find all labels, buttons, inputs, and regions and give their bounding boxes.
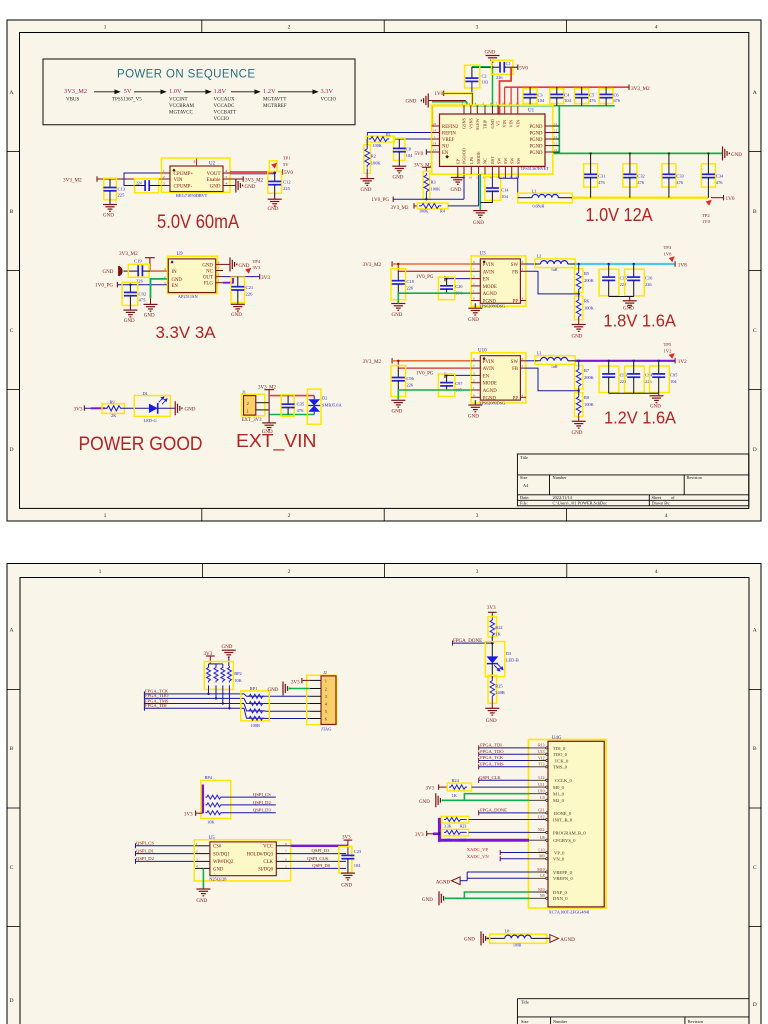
ground (C12): [268, 199, 282, 206]
ground (U5): [196, 889, 210, 896]
svg-text:PP: PP: [513, 300, 519, 305]
svg-text:R26: R26: [460, 839, 466, 843]
ground (R25): [485, 708, 499, 715]
wire FLG purple: [223, 277, 233, 283]
svg-text:CPUMP+: CPUMP+: [174, 172, 194, 177]
svg-text:LED-B: LED-B: [506, 658, 519, 663]
svg-text:NC: NC: [483, 158, 488, 164]
capacitor C35: [281, 395, 294, 417]
ground (EP): [457, 174, 459, 177]
svg-text:R9: R9: [110, 399, 116, 404]
svg-text:TPS51367RVET: TPS51367RVET: [521, 166, 550, 171]
svg-text:MODE: MODE: [476, 151, 481, 164]
ground (C96/AGND U10): [391, 400, 405, 407]
svg-text:FPGA_DONE: FPGA_DONE: [480, 808, 507, 813]
svg-text:Number: Number: [553, 475, 568, 480]
svg-text:PGND: PGND: [529, 132, 543, 137]
svg-text:3: 3: [476, 513, 479, 519]
svg-text:NU: NU: [442, 145, 449, 150]
svg-text:200K: 200K: [584, 375, 595, 380]
svg-text:1: 1: [325, 678, 327, 683]
svg-text:C31: C31: [598, 174, 605, 179]
svg-text:U8: U8: [540, 836, 545, 840]
sheet 2 inner border: [20, 578, 749, 1024]
wire SW to L3: [526, 360, 535, 362]
svg-text:1V0_PG: 1V0_PG: [416, 275, 434, 280]
svg-text:AGND: AGND: [436, 881, 451, 886]
svg-text:L8: L8: [505, 929, 511, 934]
svg-text:5.0V 60mA: 5.0V 60mA: [157, 212, 239, 233]
ground (D1): [175, 401, 182, 415]
svg-text:1K: 1K: [452, 793, 458, 798]
capacitor C31: [584, 164, 598, 187]
svg-text:B: B: [753, 209, 757, 215]
svg-text:B: B: [753, 746, 757, 752]
ground (C8): [392, 166, 406, 173]
ground (C93 C94 C95): [650, 396, 664, 403]
svg-text:XC7A100T-2FGG484I: XC7A100T-2FGG484I: [549, 909, 590, 914]
svg-text:100K: 100K: [431, 187, 442, 192]
svg-text:GND: GND: [103, 270, 114, 275]
wire IN highlighted: [150, 270, 168, 272]
svg-text:CLK: CLK: [263, 860, 273, 865]
svg-text:QSPI_D1: QSPI_D1: [136, 848, 155, 853]
capacitor C96: [391, 366, 406, 397]
svg-text:D: D: [9, 998, 13, 1004]
svg-text:4: 4: [226, 181, 228, 185]
svg-text:A4: A4: [523, 483, 529, 488]
regulator U3 selection box: [471, 256, 526, 306]
wire AVIN red (U10): [398, 361, 471, 368]
svg-text:104: 104: [670, 379, 677, 384]
U2 pins: [162, 173, 231, 186]
fpga U4G body: [548, 741, 604, 907]
svg-text:4: 4: [655, 25, 658, 31]
svg-text:1V0_PG: 1V0_PG: [95, 282, 113, 288]
wire 1V8 cyan: [575, 263, 675, 265]
regulator U10 body: [480, 356, 520, 400]
svg-text:VCCINT: VCCINT: [169, 98, 188, 103]
svg-text:3: 3: [476, 25, 479, 31]
svg-text:EXT_3V3: EXT_3V3: [242, 418, 263, 423]
svg-text:CCLK_0: CCLK_0: [555, 778, 573, 783]
wire SW to L2: [526, 263, 535, 265]
capacitor C14: [485, 177, 501, 201]
svg-text:TDI_0: TDI_0: [553, 746, 566, 751]
connector J1 body: [244, 396, 256, 416]
svg-text:2022/11/14: 2022/11/14: [553, 495, 573, 500]
svg-text:C96: C96: [407, 376, 415, 381]
svg-text:MGTRREF: MGTRREF: [263, 104, 287, 109]
svg-text:3V3_M2: 3V3_M2: [245, 178, 264, 183]
svg-text:U10: U10: [538, 790, 545, 794]
wire 3V3_M2 to VIN: [97, 176, 170, 182]
svg-text:U3: U3: [480, 252, 487, 257]
capacitor C20: [438, 277, 454, 300]
svg-text:226: 226: [496, 75, 503, 80]
svg-text:VIN: VIN: [515, 120, 520, 128]
node 5V0 (U1): [517, 65, 519, 71]
resistor pack RP2: [204, 662, 233, 690]
svg-text:476: 476: [716, 180, 723, 185]
wire AGND green: [151, 279, 169, 298]
svg-text:PVIN: PVIN: [483, 263, 495, 268]
svg-text:VCCADC: VCCADC: [214, 104, 236, 109]
svg-text:104: 104: [538, 98, 545, 103]
wire Enable to 3V3_M2: [230, 178, 243, 180]
svg-text:4: 4: [655, 569, 658, 575]
svg-text:NC: NC: [206, 270, 213, 275]
sequence arrows: [94, 90, 318, 94]
svg-text:of: of: [671, 495, 675, 500]
svg-text:14: 14: [554, 122, 558, 126]
svg-text:EN: EN: [483, 374, 490, 379]
wire OUT 3V3: [223, 276, 260, 278]
wire VOUT 5V0: [230, 171, 275, 173]
svg-text:Revision: Revision: [687, 475, 703, 480]
svg-text:3V3: 3V3: [253, 265, 262, 270]
svg-text:C2: C2: [482, 73, 487, 78]
svg-text:GND: GND: [451, 188, 462, 193]
svg-text:Revision: Revision: [688, 1019, 704, 1024]
svg-text:GND: GND: [392, 410, 403, 415]
svg-text:226: 226: [407, 286, 414, 291]
J1 pin wires: [256, 403, 269, 410]
U10 pin numbers: [473, 357, 524, 398]
wire FB: [526, 271, 579, 294]
svg-text:R25: R25: [495, 684, 503, 689]
svg-text:2: 2: [288, 25, 291, 31]
svg-text:GND: GND: [268, 688, 279, 693]
svg-text:TP1: TP1: [283, 156, 291, 161]
capacitor C1: [492, 60, 513, 74]
connector J2 body: [321, 676, 336, 725]
svg-text:QSPI_CS: QSPI_CS: [136, 841, 154, 846]
svg-text:SI/DQ0: SI/DQ0: [258, 867, 274, 872]
regulator U1 body: [440, 114, 546, 166]
svg-text:C35: C35: [297, 402, 305, 407]
capacitor C18: [391, 269, 406, 300]
sheet 2 page background: [7, 564, 761, 1024]
svg-text:3V3_M2: 3V3_M2: [631, 86, 650, 92]
svg-text:3V3: 3V3: [426, 787, 435, 792]
svg-text:VCC: VCC: [263, 845, 273, 850]
ground (U2 GND pin): [230, 185, 236, 187]
svg-text:224: 224: [136, 181, 142, 185]
svg-text:6: 6: [226, 169, 228, 173]
svg-text:RP2: RP2: [234, 671, 242, 676]
svg-text:VCCIO: VCCIO: [321, 98, 337, 103]
svg-text:1uH: 1uH: [551, 268, 558, 272]
svg-text:CPUMP-: CPUMP-: [174, 185, 193, 190]
svg-text:EXT_VIN: EXT_VIN: [236, 430, 317, 452]
svg-text:DXP_0: DXP_0: [553, 890, 567, 895]
svg-text:10: 10: [515, 102, 519, 106]
svg-text:EP: EP: [455, 158, 460, 164]
svg-text:1.2V: 1.2V: [263, 88, 276, 95]
svg-text:C14: C14: [501, 188, 509, 193]
svg-text:VCCBATT: VCCBATT: [214, 111, 237, 116]
svg-text:SMBJ5.0A: SMBJ5.0A: [322, 403, 342, 408]
RP2 resistor tails: [209, 685, 230, 708]
svg-text:D3: D3: [506, 651, 512, 656]
ground (R2): [360, 179, 374, 186]
svg-text:Date:: Date:: [520, 495, 529, 500]
svg-text:L1: L1: [532, 188, 537, 193]
regulator U10 selection box: [471, 353, 526, 403]
svg-text:3.3V 3A: 3.3V 3A: [156, 323, 217, 342]
ground (C13): [103, 205, 117, 212]
svg-text:PGND: PGND: [529, 151, 543, 156]
svg-text:SO/DQ1: SO/DQ1: [213, 852, 230, 857]
svg-text:GSNS: GSNS: [462, 117, 467, 129]
svg-text:476: 476: [676, 180, 683, 185]
svg-text:SW: SW: [516, 157, 521, 164]
svg-text:GND: GND: [268, 207, 279, 212]
wire PVIN red (U10): [392, 360, 471, 362]
inductor L3: [535, 356, 575, 365]
sheet 1 title block: [517, 454, 748, 506]
svg-text:R6: R6: [584, 298, 590, 303]
resistor R3: [423, 171, 430, 199]
sequence sub labels: [66, 98, 336, 123]
regulator U1 selection box: [432, 105, 553, 174]
svg-text:3V3: 3V3: [261, 275, 270, 281]
svg-text:19: 19: [433, 129, 437, 133]
wire SW bus: [499, 174, 518, 198]
svg-text:476: 476: [637, 180, 644, 185]
capacitor C93: [599, 366, 619, 393]
svg-text:C33: C33: [676, 174, 684, 179]
svg-text:C8: C8: [406, 147, 412, 152]
svg-text:RP1: RP1: [250, 686, 258, 691]
svg-text:C20: C20: [455, 284, 463, 289]
svg-text:3V3_M2: 3V3_M2: [63, 177, 82, 183]
svg-text:10K: 10K: [207, 819, 215, 824]
svg-text:GND: GND: [124, 319, 135, 324]
svg-text:CS#: CS#: [213, 845, 222, 850]
svg-text:1: 1: [104, 25, 107, 31]
resistor R1: [367, 136, 395, 142]
wire 1V2 purple: [575, 360, 675, 362]
svg-text:XADC_VN: XADC_VN: [467, 854, 490, 859]
wire jtag bus: [144, 691, 309, 718]
svg-text:SW: SW: [511, 360, 519, 365]
svg-text:GND: GND: [486, 719, 497, 724]
regulator U9 body: [168, 259, 215, 293]
svg-text:C92: C92: [139, 291, 147, 296]
wire QSPI_D3: [291, 853, 346, 855]
connector J2 selection box: [307, 675, 337, 724]
svg-text:U9: U9: [177, 252, 184, 257]
svg-text:C93: C93: [620, 372, 628, 377]
svg-text:C:\Users\..\01 POWER.SchDoc: C:\Users\..\01 POWER.SchDoc: [553, 501, 608, 506]
svg-text:Size: Size: [520, 475, 527, 480]
svg-text:1.0V: 1.0V: [169, 88, 182, 95]
svg-text:GND: GND: [196, 899, 207, 904]
ground (U9 AGND): [144, 304, 158, 311]
resistor R23: [442, 816, 469, 823]
wire CPUMP+ loop: [124, 173, 170, 186]
wire bottom EXT green: [269, 414, 314, 416]
svg-text:GND: GND: [361, 188, 372, 193]
svg-text:12: 12: [554, 135, 558, 139]
svg-text:M1_0: M1_0: [553, 792, 565, 797]
svg-text:5V: 5V: [124, 88, 132, 95]
op-amp U2 body: [170, 166, 223, 192]
capacitor C6: [599, 89, 613, 104]
svg-text:1.8V 1.6A: 1.8V 1.6A: [603, 311, 676, 331]
svg-text:U13: U13: [538, 750, 545, 754]
svg-text:R2: R2: [371, 154, 376, 159]
capacitor C16: [625, 269, 645, 296]
connector J1 selection box: [242, 394, 265, 416]
svg-text:476: 476: [598, 180, 605, 185]
ground (U10 PGND): [474, 400, 476, 405]
wire PVIN red: [392, 263, 471, 265]
resistor R7: [575, 366, 583, 390]
svg-text:D: D: [753, 1002, 757, 1008]
svg-text:C34: C34: [716, 174, 724, 179]
sheet 2 zone labels: [9, 569, 756, 1008]
svg-text:CFGBVS_0: CFGBVS_0: [553, 838, 576, 843]
svg-text:VIN: VIN: [509, 120, 514, 128]
svg-text:200K: 200K: [584, 278, 595, 283]
svg-text:GND: GND: [210, 185, 221, 190]
ground (U1 bottom big): [479, 174, 481, 210]
svg-text:FB: FB: [512, 270, 518, 275]
U1 left pins: [432, 126, 440, 152]
svg-text:GND: GND: [468, 318, 479, 323]
capacitor C10 flying box: [135, 179, 159, 193]
svg-text:226: 226: [246, 291, 254, 296]
svg-text:REFIN2: REFIN2: [442, 125, 459, 130]
svg-text:L9: L9: [540, 796, 544, 800]
sheet 1 zone ticks: [7, 20, 761, 521]
svg-text:3V3: 3V3: [74, 407, 83, 413]
svg-text:C16: C16: [645, 276, 653, 281]
svg-text:AVIN: AVIN: [483, 367, 495, 372]
U1 top pins: [464, 105, 498, 114]
svg-text:VIN: VIN: [502, 120, 507, 128]
node 5V0: [282, 169, 284, 174]
svg-text:L3: L3: [537, 350, 543, 355]
ground (R6): [572, 325, 586, 332]
svg-text:2: 2: [325, 686, 327, 691]
svg-text:GND: GND: [231, 313, 242, 318]
svg-text:TPS51367_V5: TPS51367_V5: [112, 98, 142, 103]
svg-text:5V: 5V: [283, 162, 289, 167]
svg-text:C19: C19: [134, 259, 142, 264]
svg-text:EN: EN: [483, 278, 490, 283]
svg-text:4: 4: [194, 160, 196, 164]
svg-text:2: 2: [288, 513, 291, 519]
svg-text:C23: C23: [354, 849, 362, 854]
ground (C18/AGND): [391, 304, 405, 311]
svg-text:5V0: 5V0: [415, 152, 424, 157]
resistor R5: [575, 269, 583, 293]
svg-text:1.0V 12A: 1.0V 12A: [586, 205, 653, 225]
svg-text:J2: J2: [323, 670, 327, 675]
wire D1 to gnd: [158, 407, 176, 409]
svg-text:AGND: AGND: [560, 938, 575, 943]
svg-text:1V8: 1V8: [678, 262, 687, 268]
svg-text:C97: C97: [455, 381, 463, 386]
svg-text:100K: 100K: [419, 209, 428, 214]
svg-text:U10: U10: [478, 349, 487, 354]
svg-text:2K: 2K: [111, 413, 117, 418]
LED D3: [485, 642, 505, 677]
ground (J1): [262, 423, 276, 430]
svg-text:B: B: [10, 746, 14, 752]
svg-text:476: 476: [614, 98, 621, 103]
svg-text:C21: C21: [246, 285, 254, 290]
resistor R6: [575, 296, 583, 320]
svg-text:L2: L2: [537, 254, 542, 259]
ground (C23): [341, 873, 355, 880]
U4G pin stubs and names: [529, 748, 546, 898]
svg-text:L10: L10: [538, 848, 544, 852]
svg-text:R3: R3: [431, 180, 437, 185]
svg-text:475: 475: [139, 298, 147, 303]
svg-text:LP#: LP#: [469, 156, 474, 164]
svg-text:1uH: 1uH: [551, 365, 558, 369]
svg-text:GND: GND: [245, 185, 256, 190]
wire 3V3 to R9: [84, 407, 105, 409]
svg-text:104: 104: [564, 98, 571, 103]
sheet 1 zone labels: [9, 25, 756, 519]
svg-text:XADC_VP: XADC_VP: [467, 847, 489, 852]
svg-text:R1: R1: [386, 132, 391, 137]
wire VCC purple: [291, 845, 348, 847]
capacitor C94: [625, 366, 645, 393]
svg-text:GND: GND: [103, 214, 114, 219]
svg-text:TP4: TP4: [253, 259, 261, 264]
svg-text:C6: C6: [614, 93, 620, 98]
svg-text:226: 226: [645, 379, 652, 384]
capacitor C33: [662, 164, 676, 187]
wire top EXT red: [269, 395, 314, 397]
svg-text:D1: D1: [143, 391, 148, 396]
svg-text:MODE: MODE: [483, 285, 497, 290]
svg-text:C1: C1: [506, 61, 511, 66]
svg-text:220: 220: [620, 282, 627, 287]
svg-text:C95: C95: [670, 372, 678, 377]
svg-text:N9: N9: [540, 894, 545, 898]
svg-text:1: 1: [163, 169, 165, 173]
svg-text:QSPI_CS: QSPI_CS: [253, 792, 271, 797]
svg-text:C12: C12: [283, 179, 291, 184]
svg-text:A: A: [753, 90, 757, 96]
ground (R8): [572, 421, 586, 428]
wire config purple: [433, 818, 529, 842]
wire R9 to D1: [123, 407, 149, 409]
svg-text:M2_0: M2_0: [553, 798, 565, 803]
svg-text:3V3_M2: 3V3_M2: [363, 262, 382, 268]
svg-text:1V0: 1V0: [702, 219, 711, 224]
svg-text:QSPI_D2: QSPI_D2: [136, 856, 155, 861]
svg-text:A: A: [9, 90, 13, 96]
U3 pin numbers: [473, 260, 524, 301]
capacitor C19: [128, 264, 149, 277]
svg-text:100K: 100K: [373, 143, 382, 148]
svg-text:2: 2: [288, 569, 291, 575]
svg-text:3V3_M2: 3V3_M2: [391, 206, 410, 211]
svg-text:11: 11: [554, 142, 557, 146]
node 1V8: [674, 261, 676, 266]
ground (C15 C16): [623, 301, 637, 308]
capacitor C23: [339, 847, 352, 874]
